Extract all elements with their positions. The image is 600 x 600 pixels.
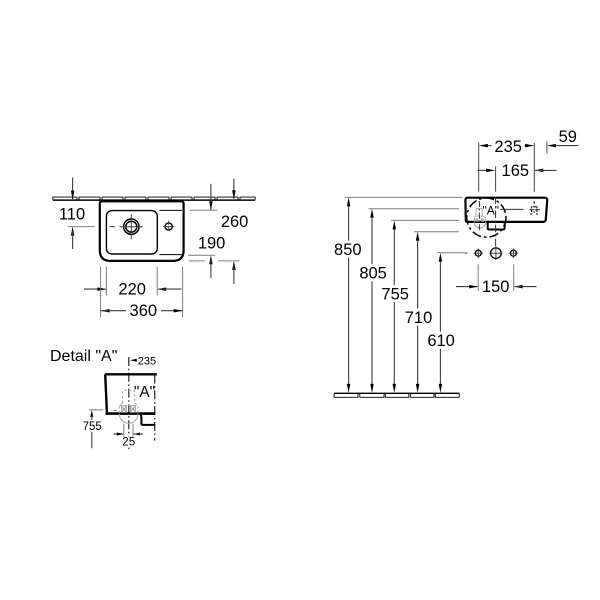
svg-text:235: 235 (138, 355, 156, 367)
svg-text:Detail "A": Detail "A" (50, 348, 117, 365)
svg-text:755: 755 (83, 421, 102, 433)
svg-text:"A": "A" (483, 203, 500, 217)
svg-text:710: 710 (405, 309, 433, 327)
svg-text:260: 260 (221, 213, 249, 231)
svg-text:165: 165 (502, 162, 530, 180)
svg-text:"A": "A" (134, 384, 155, 401)
svg-text:755: 755 (381, 286, 409, 304)
svg-text:850: 850 (334, 241, 362, 259)
svg-text:150: 150 (482, 278, 510, 296)
svg-text:235: 235 (494, 138, 522, 156)
svg-text:190: 190 (198, 235, 226, 253)
svg-text:110: 110 (59, 206, 85, 224)
svg-text:25: 25 (122, 437, 135, 449)
svg-text:59: 59 (559, 128, 577, 146)
svg-text:220: 220 (118, 281, 146, 299)
svg-text:360: 360 (130, 302, 158, 320)
svg-text:610: 610 (427, 332, 455, 350)
svg-text:805: 805 (359, 265, 387, 283)
